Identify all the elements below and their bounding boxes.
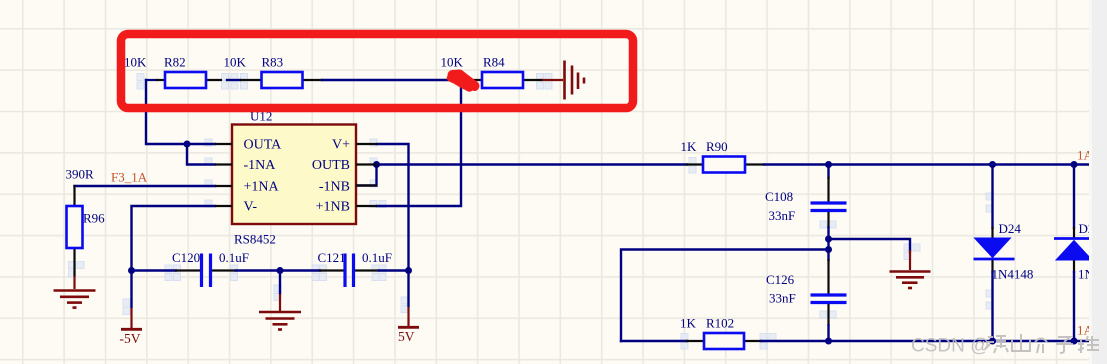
svg-text:1N4148: 1N4148	[992, 267, 1034, 282]
capacitor C108	[811, 203, 847, 211]
推	[1078, 336, 1099, 353]
svg-text:10K: 10K	[441, 55, 464, 70]
svg-text:C126: C126	[766, 272, 795, 287]
wire junction to right ground	[829, 239, 911, 251]
node rail -5V	[128, 267, 135, 274]
svg-text:10K: 10K	[124, 55, 147, 70]
node D24 bottom	[989, 338, 996, 345]
svg-text:R82: R82	[164, 55, 186, 70]
wire C108 top lead	[827, 165, 829, 179]
介	[1035, 339, 1047, 354]
svg-text:F3_1A: F3_1A	[111, 170, 148, 185]
svg-text:1K: 1K	[681, 139, 698, 154]
wire R83 to node under scribble	[302, 79, 322, 81]
wire R96 top lead	[73, 186, 75, 206]
node loop branch	[825, 246, 832, 253]
svg-text:R90: R90	[706, 139, 728, 154]
op-amp pin stubs right	[356, 144, 377, 206]
diode D24 (pointing down)	[974, 238, 1015, 259]
svg-text:5V: 5V	[398, 329, 415, 344]
svg-text:OUTA: OUTA	[244, 138, 283, 153]
capacitor C121	[345, 254, 354, 288]
wire OUTA node to pin	[187, 143, 215, 145]
svg-text:RS8452: RS8452	[234, 232, 276, 247]
子	[1056, 337, 1073, 353]
wire R102 right to rail junction	[744, 340, 761, 342]
wire D25 bottom lead	[1073, 260, 1075, 272]
wire node to R84	[461, 79, 482, 81]
svg-text:33nF: 33nF	[769, 291, 796, 306]
山	[1012, 334, 1030, 351]
svg-text:0.1uF: 0.1uF	[219, 250, 249, 265]
resistor R84	[482, 72, 523, 88]
resistor R90	[703, 157, 745, 173]
svg-text:1K: 1K	[680, 316, 697, 331]
wire D25 top lead	[1073, 165, 1075, 229]
wire D24 bottom lead	[991, 260, 993, 272]
ground (under R96)	[54, 276, 96, 308]
wire R90 left lead	[687, 163, 702, 165]
svg-text:CSDN @: CSDN @	[911, 336, 989, 357]
wire R96 bottom lead	[73, 248, 75, 276]
wire +INB to vertical riser up to top row	[377, 80, 461, 206]
svg-text:+1NA: +1NA	[244, 180, 280, 195]
svg-text:+1NB: +1NB	[316, 200, 350, 215]
wire V- to left and down to rail	[132, 206, 216, 271]
capacitor C120	[202, 254, 211, 288]
绵	[985, 336, 1008, 353]
wire C126 bottom lead to rail	[827, 303, 829, 326]
ground (middle of cap rail)	[259, 271, 301, 330]
wire cap rail -5V to 5V	[132, 269, 177, 271]
power -5V symbol	[121, 271, 142, 330]
wire C126 top lead	[827, 260, 829, 295]
wire R90 right to canvas edge	[745, 163, 764, 165]
op-amp pin stubs left	[215, 144, 232, 206]
svg-text:-1NA: -1NA	[244, 158, 277, 173]
power 5V symbol	[398, 271, 419, 328]
wire feedback left: top row down to OUTA node	[146, 80, 187, 144]
svg-text:OUTB: OUTB	[312, 158, 350, 173]
svg-text:C108: C108	[765, 189, 793, 204]
wire junction left loop down to bottom rail	[621, 250, 829, 342]
svg-text:D24: D24	[999, 221, 1022, 236]
node OUTA feedback	[184, 141, 191, 148]
wire OUTB long run to R90	[377, 163, 687, 165]
op-amp U12 body	[232, 125, 356, 225]
resistor R83	[262, 72, 303, 88]
resistor R102	[704, 333, 744, 349]
svg-text:33nF: 33nF	[769, 208, 796, 223]
wire V+ to the right and down to 5V rail	[377, 144, 409, 271]
node C108 bottom / gnd branch	[825, 236, 832, 243]
node OUTB	[373, 161, 380, 168]
CJK glyph approximations	[985, 334, 1099, 353]
svg-text:0.1uF: 0.1uF	[362, 250, 392, 265]
svg-text:V-: V-	[244, 200, 258, 215]
svg-text:10K: 10K	[224, 55, 247, 70]
wire R84 to ground	[523, 79, 542, 81]
wire top row from corner to R82	[146, 79, 157, 81]
wire R82 to R83	[206, 79, 221, 81]
node C108 top	[825, 161, 832, 168]
svg-text:390R: 390R	[66, 167, 95, 182]
right gray strip (outside canvas)	[1090, 0, 1107, 364]
node D25 top	[1071, 161, 1078, 168]
wire +INA from R96 top	[75, 185, 216, 187]
svg-text:C120: C120	[172, 250, 200, 265]
ground (top right, rotated earth)	[542, 61, 584, 100]
wire C108 bottom to junctions	[827, 210, 829, 227]
wire D24 top lead	[991, 165, 993, 229]
red scribble over 10K/R84 node	[453, 75, 475, 87]
svg-text:R96: R96	[83, 211, 105, 226]
ground (right of C108/C126 node)	[890, 250, 931, 288]
node rail gnd	[277, 267, 284, 274]
svg-text:R83: R83	[262, 55, 284, 70]
capacitor C126	[811, 295, 847, 303]
wire OUTB down to -INB	[356, 165, 377, 186]
node C126 bottom rail	[825, 338, 832, 345]
wire OUTA node down to -INA	[187, 144, 215, 165]
resistor R96 (vertical)	[67, 206, 83, 248]
svg-text:-5V: -5V	[120, 331, 141, 346]
diode D25 (pointing up, clipped at canvas edge)	[1054, 239, 1092, 261]
node D25 bottom	[1071, 338, 1078, 345]
red highlight rectangle	[121, 34, 633, 108]
wire bottom rail left to R102	[621, 340, 687, 342]
resistor R82	[165, 72, 206, 88]
op-amp U12 pin names	[244, 138, 351, 215]
svg-text:R102: R102	[706, 316, 734, 331]
svg-text:C121: C121	[318, 250, 346, 265]
node rail 5V	[405, 267, 412, 274]
svg-text:-1NB: -1NB	[319, 180, 350, 195]
node top row / R84 branch	[458, 77, 464, 83]
svg-text:R84: R84	[483, 55, 505, 70]
svg-text:V+: V+	[332, 138, 350, 153]
node D24 top	[989, 161, 996, 168]
